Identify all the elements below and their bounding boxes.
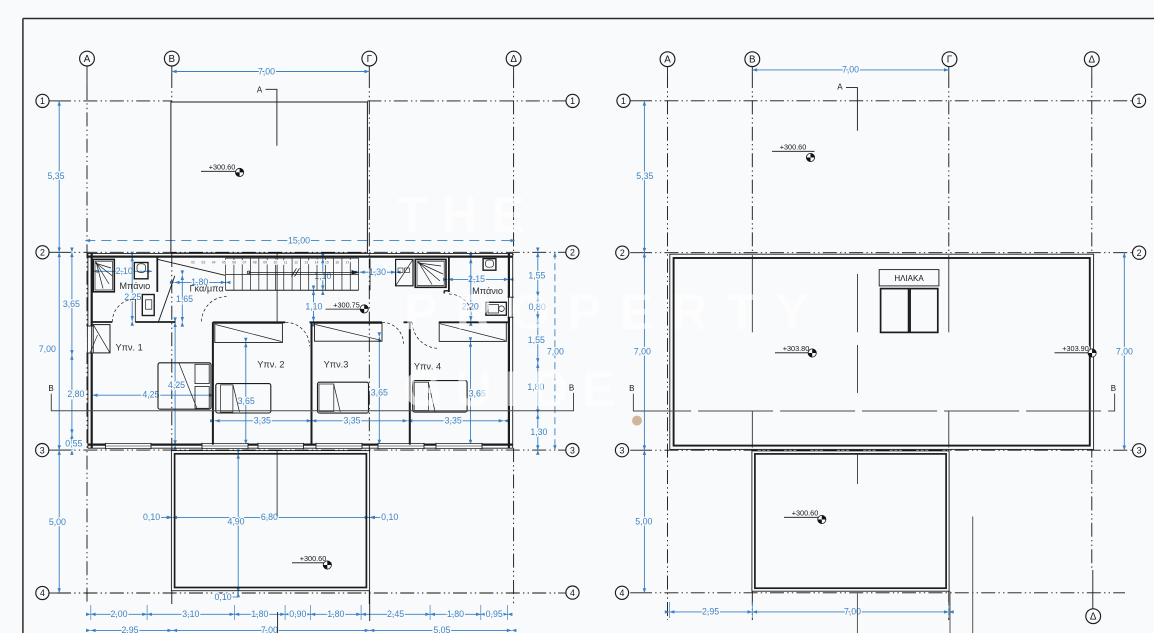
grid bubble 2	[566, 246, 579, 259]
dim 3,65 bedroom4 vertical	[470, 342, 472, 445]
svg-text:Μπάνιο: Μπάνιο	[119, 281, 150, 291]
dim 2,10 bathroom1	[93, 270, 152, 272]
stair direction arrow	[249, 271, 352, 273]
dim 4,90 terrace vertical	[237, 454, 239, 593]
svg-text:14: 14	[315, 260, 319, 264]
dim 1,65 closet vertical	[181, 275, 183, 322]
grid axis A (right plan) vertical	[667, 66, 669, 74]
dim 3,35 bedroom4	[410, 420, 504, 422]
svg-text:5,35: 5,35	[47, 171, 64, 181]
dim chain right: 1,55 / 0,80 / 1,55 / 1,80 / 1,30	[537, 252, 539, 450]
svg-text:1: 1	[1137, 96, 1142, 106]
svg-text:A: A	[664, 55, 671, 66]
svg-text:3,65: 3,65	[371, 388, 388, 398]
dim 1,10 corridor	[313, 290, 315, 321]
grid bubble Δ	[506, 51, 521, 66]
dim 4,25 bedroom1 horizontal	[93, 394, 214, 396]
svg-text:1,30: 1,30	[369, 267, 386, 277]
svg-text:15: 15	[325, 260, 329, 264]
grid axis 4 (right plan) horizontal	[630, 592, 638, 594]
svg-text:ΗΛΙΑΚΑ: ΗΛΙΑΚΑ	[894, 274, 924, 283]
svg-text:07: 07	[243, 260, 247, 264]
svg-text:A: A	[84, 54, 91, 65]
svg-text:6,80: 6,80	[261, 512, 278, 522]
svg-text:7,00: 7,00	[547, 346, 564, 356]
section B-B trace left plan	[51, 393, 573, 411]
section B-B trace right plan	[633, 394, 1114, 412]
grid axis 1 (right plan) horizontal	[630, 100, 638, 102]
svg-text:06: 06	[232, 260, 236, 264]
svg-text:5,00: 5,00	[635, 516, 652, 526]
roof outline	[670, 254, 1094, 449]
svg-text:0,10: 0,10	[381, 512, 398, 522]
dim 1,30 stair landing	[360, 271, 396, 273]
wc bathroom1	[142, 295, 154, 316]
svg-text:GUIDE: GUIDE	[403, 361, 629, 417]
grid axis B (left plan) vertical	[171, 65, 173, 74]
svg-text:02: 02	[191, 260, 195, 264]
svg-text:3: 3	[620, 445, 625, 455]
svg-text:+303.90: +303.90	[1062, 344, 1089, 353]
svg-text:7,00: 7,00	[258, 66, 275, 76]
section line A segments	[276, 253, 278, 323]
svg-text:2: 2	[1137, 248, 1142, 258]
svg-text:Υπν. 2: Υπν. 2	[257, 359, 284, 369]
svg-text:1,80: 1,80	[447, 609, 464, 619]
roof interior lines at B and Gamma	[751, 255, 753, 332]
terrace left plan	[171, 451, 369, 591]
bedroom1 entry door swing	[202, 297, 227, 322]
svg-text:09: 09	[263, 260, 267, 264]
door swing bedroom3	[382, 322, 404, 344]
solar panels	[881, 289, 909, 333]
grid bubble 3	[1133, 444, 1146, 457]
dim 1,10 stair width	[322, 259, 324, 291]
grid bubble 4	[36, 586, 49, 599]
grid axis 1 (left plan) horizontal	[49, 100, 57, 102]
svg-text:05: 05	[222, 260, 226, 264]
grid bubble 4	[566, 586, 579, 599]
wardrobe bedroom3	[315, 323, 383, 341]
svg-text:0,95: 0,95	[486, 609, 503, 619]
roof interior mask	[670, 254, 1094, 449]
svg-text:16: 16	[335, 260, 339, 264]
svg-text:+300.75: +300.75	[333, 300, 360, 309]
svg-text:+300.60: +300.60	[780, 143, 807, 152]
svg-text:03: 03	[201, 260, 205, 264]
svg-text:2: 2	[40, 247, 45, 257]
bed bedroom2	[216, 384, 271, 413]
svg-text:1: 1	[40, 96, 45, 106]
bathroom1 door swing	[112, 299, 135, 322]
bed bedroom3	[318, 382, 369, 413]
exterior walls	[87, 253, 89, 448]
closet (Gkarderoba) sloped lines	[157, 259, 225, 275]
svg-text:1,80: 1,80	[327, 609, 344, 619]
svg-text:5,05: 5,05	[433, 625, 450, 633]
wardrobe bedroom4	[439, 323, 506, 342]
dim 0,10 terrace right	[370, 516, 381, 518]
dim 15,00 left plan	[85, 240, 515, 242]
svg-text:Δ: Δ	[1090, 612, 1097, 623]
svg-text:04: 04	[212, 260, 216, 264]
svg-text:2,80: 2,80	[67, 389, 84, 399]
grid axis Delta (right plan) vertical	[1091, 66, 1093, 74]
svg-text:7,00: 7,00	[39, 344, 56, 354]
svg-text:7,00: 7,00	[634, 346, 651, 356]
svg-text:2: 2	[620, 248, 625, 258]
bathroom2 west wall	[448, 257, 450, 292]
shower bathroom1	[93, 259, 114, 291]
grid axis Gamma (left plan) vertical	[368, 65, 370, 74]
grid bubble A	[660, 52, 675, 67]
grid bubble B	[745, 52, 760, 67]
corridor south wall segments	[213, 321, 285, 323]
wc bathroom2	[486, 302, 507, 315]
grid bubble 2	[616, 246, 629, 259]
svg-text:+300.60: +300.60	[300, 554, 327, 563]
dim 6,80 terrace	[172, 516, 369, 518]
dim 4,25 bedroom1 vertical	[174, 322, 176, 445]
dim column far-left: 5,35 / 7,00 / 5,00	[58, 101, 60, 593]
svg-text:3: 3	[1137, 445, 1142, 455]
grid bubble 1	[36, 94, 49, 107]
vanity bathroom2	[483, 259, 496, 271]
sheet frame top	[23, 18, 1154, 20]
dim 0,10 terrace left	[160, 516, 171, 518]
grid axis B (right plan) vertical	[751, 66, 753, 74]
svg-text:3,10: 3,10	[182, 609, 199, 619]
terrace right edge extension	[949, 591, 951, 633]
svg-text:Υπν. 1: Υπν. 1	[115, 342, 142, 352]
svg-text:2,00: 2,00	[110, 609, 127, 619]
svg-text:17: 17	[346, 260, 350, 264]
svg-text:B: B	[1111, 384, 1116, 393]
vanity bathroom1	[134, 263, 148, 279]
bathroom2 wall jog	[444, 290, 449, 292]
bedroom partition walls	[212, 322, 214, 444]
svg-text:0,90: 0,90	[289, 609, 306, 619]
left wall window	[87, 326, 93, 353]
dim 1,80 closet	[175, 281, 226, 283]
svg-text:5,35: 5,35	[636, 171, 653, 181]
svg-text:3,35: 3,35	[343, 415, 360, 425]
bed bedroom1 (double)	[158, 363, 211, 409]
grid bubble Γ	[362, 51, 377, 66]
svg-text:2,95: 2,95	[121, 625, 138, 633]
svg-text:THE: THE	[397, 187, 539, 243]
grid axis A (left plan) vertical	[86, 66, 88, 86]
solar heater label box HLIAKA	[879, 270, 939, 286]
bottom wall windows	[106, 443, 152, 449]
svg-text:13: 13	[304, 260, 308, 264]
grid axis Gamma (right plan) vertical	[948, 66, 950, 74]
svg-text:Δ: Δ	[1089, 55, 1096, 66]
bathroom1 south wall + door opening	[92, 321, 113, 323]
bed bedroom4	[413, 381, 467, 413]
svg-text:0,10: 0,10	[143, 512, 160, 522]
wardrobe bedroom2	[215, 323, 283, 342]
svg-text:B: B	[48, 384, 53, 393]
svg-text:1,55: 1,55	[528, 271, 545, 281]
bathroom1 right wall	[156, 257, 158, 292]
svg-text:08: 08	[253, 260, 257, 264]
svg-text:Υπν.3: Υπν.3	[324, 359, 349, 369]
grid bubble 2	[36, 246, 49, 259]
grid bubble 1	[617, 94, 630, 107]
grid bubble 1	[1132, 94, 1145, 107]
grid axis 2 (left plan) horizontal	[49, 251, 57, 253]
svg-text:7,00: 7,00	[1116, 346, 1133, 356]
svg-text:5,00: 5,00	[49, 517, 66, 527]
grid bubble Δ	[1084, 52, 1099, 67]
watermark dot	[632, 416, 642, 426]
bathroom2 door swing	[449, 294, 472, 317]
svg-text:1: 1	[570, 96, 575, 106]
sheet frame left	[22, 19, 24, 634]
dim 2,20 bathroom2 vertical	[470, 258, 472, 321]
grid bubble Δ	[1086, 609, 1101, 624]
svg-text:A: A	[837, 83, 843, 92]
svg-text:+300.60: +300.60	[209, 163, 236, 172]
corner closet bedroom1	[93, 325, 110, 353]
svg-text:B: B	[629, 384, 634, 393]
grid bubble 1	[566, 94, 579, 107]
svg-text:12: 12	[294, 260, 298, 264]
svg-text:1,80: 1,80	[251, 609, 268, 619]
svg-text:11: 11	[284, 260, 288, 264]
dim 3,35 bedroom2	[215, 420, 312, 422]
svg-text:0,55: 0,55	[65, 438, 82, 448]
svg-text:Δ: Δ	[510, 54, 517, 65]
svg-text:2: 2	[570, 247, 575, 257]
dim 3,65 bedroom3 vertical	[378, 337, 380, 445]
grid bubble 3	[615, 444, 628, 457]
dim 2,15 bathroom2	[448, 278, 509, 280]
svg-text:3: 3	[570, 445, 575, 455]
svg-text:3,65: 3,65	[238, 396, 255, 406]
svg-text:1,10: 1,10	[305, 302, 322, 312]
svg-text:Γκα/μπα: Γκα/μπα	[189, 284, 224, 294]
grid bubble Γ	[942, 52, 957, 67]
svg-text:Γ: Γ	[367, 54, 373, 65]
svg-text:4,90: 4,90	[227, 516, 244, 526]
dim chain left: 3,65 / 2,80 / 0,55	[71, 252, 73, 450]
dim 0,10 terrace bottom	[232, 596, 239, 598]
grid axis Delta (left plan) vertical	[513, 65, 515, 74]
door swing bedroom4	[413, 322, 439, 348]
svg-text:4,25: 4,25	[168, 380, 185, 390]
dim 3,35 bedroom3	[314, 420, 408, 422]
terrace right edge extension left plan	[369, 591, 371, 621]
grid axis 4 (left plan) horizontal	[49, 592, 57, 594]
ground-floor outline (upper rectangle)	[171, 102, 368, 253]
grid bubble 3	[36, 444, 49, 457]
svg-text:15,00: 15,00	[288, 235, 310, 245]
door swing bedroom2	[286, 322, 310, 346]
svg-text:PROPERTY: PROPERTY	[404, 284, 827, 340]
shower bathroom2	[415, 259, 446, 287]
svg-text:+303.80: +303.80	[783, 344, 810, 353]
svg-text:2,45: 2,45	[387, 609, 404, 619]
svg-text:2,10: 2,10	[116, 266, 133, 276]
washer fixture corridor	[396, 259, 413, 285]
vertical line right of terrace	[972, 517, 974, 634]
grid bubble B	[164, 51, 179, 66]
svg-text:0,10: 0,10	[215, 592, 232, 602]
svg-text:4: 4	[620, 588, 625, 598]
right wall window	[508, 297, 514, 317]
grid axis 3 (right plan) horizontal	[630, 449, 638, 451]
bottom dim chain row 1	[91, 613, 508, 615]
svg-text:1: 1	[621, 96, 626, 106]
svg-text:3,65: 3,65	[63, 299, 80, 309]
bottom dim chain row 2	[91, 629, 512, 631]
dim 7,00 top (B-Gamma) left plan	[172, 71, 369, 73]
section line A segments right plan	[856, 274, 858, 332]
svg-text:7,00: 7,00	[844, 607, 861, 617]
svg-text:B: B	[749, 55, 756, 66]
bottom dim chain right plan	[670, 611, 949, 613]
svg-text:1,65: 1,65	[176, 294, 193, 304]
grid bubble A	[80, 51, 95, 66]
dim column right-plan left: 5,35 / 7,00 / 5,00	[643, 101, 645, 593]
dim right outer 7,00	[554, 252, 556, 450]
svg-text:B: B	[169, 54, 176, 65]
svg-text:7,00: 7,00	[261, 625, 278, 633]
svg-text:A: A	[257, 85, 263, 94]
dim 7,00 top (B-Gamma) right plan	[752, 69, 949, 71]
svg-text:+300.60: +300.60	[792, 509, 819, 518]
dim right-plan right 7,00	[1123, 253, 1125, 451]
dim 2,25 bathroom1 vertical	[131, 257, 133, 321]
svg-text:Γ: Γ	[947, 55, 953, 66]
svg-text:2,95: 2,95	[702, 607, 719, 617]
dim 3,65 bedroom2 vertical	[245, 343, 247, 445]
terrace right plan	[752, 451, 949, 591]
grid bubble 4	[615, 586, 628, 599]
svg-text:4,25: 4,25	[142, 389, 159, 399]
grid bubble 3	[566, 444, 579, 457]
svg-text:3: 3	[40, 445, 45, 455]
grid axis 3 (left plan) horizontal	[49, 449, 57, 451]
svg-text:3,35: 3,35	[254, 415, 271, 425]
svg-text:4: 4	[570, 588, 575, 598]
svg-text:1,30: 1,30	[530, 427, 547, 437]
svg-text:4: 4	[40, 588, 45, 598]
grid axis 2 (right plan) horizontal	[630, 252, 638, 254]
stairs	[226, 257, 359, 259]
svg-text:10: 10	[274, 260, 278, 264]
svg-text:7,00: 7,00	[842, 65, 859, 75]
grid bubble 2	[1133, 246, 1146, 259]
